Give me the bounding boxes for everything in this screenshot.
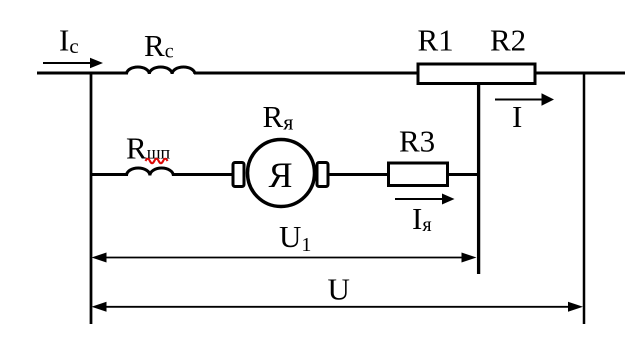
wire top-right segment: [536, 72, 625, 75]
motor armature circle: [248, 140, 315, 207]
svg-text:Rc: Rc: [144, 28, 174, 63]
current arrow Ic: [43, 58, 103, 69]
brush left: [233, 163, 244, 187]
inductor Rshp shunt winding: [127, 168, 174, 175]
wire motor to R3: [328, 173, 388, 176]
svg-text:U: U: [328, 272, 350, 307]
svg-text:Ic: Ic: [59, 23, 79, 59]
brush right: [317, 163, 328, 187]
svg-text:R1: R1: [418, 23, 454, 58]
resistor R3: [389, 163, 448, 186]
wire lower-left segment: [90, 173, 128, 176]
resistor R1 R2 body: [418, 64, 535, 84]
red spellcheck squiggle: [146, 159, 168, 164]
svg-text:U1: U1: [279, 219, 311, 256]
svg-text:R2: R2: [490, 23, 526, 58]
wire tap node from R1R2 down: [477, 85, 480, 274]
wire winding to motor: [172, 173, 234, 176]
wire top-left segment: [37, 72, 128, 75]
svg-text:Iя: Iя: [412, 201, 432, 236]
wire R3 to node: [448, 173, 480, 176]
svg-text:Я: Я: [268, 155, 292, 195]
inductor Rc series winding: [127, 67, 195, 74]
current arrow I: [495, 93, 554, 106]
svg-text:Rя: Rя: [263, 99, 294, 135]
dimension arrow U1: [92, 253, 477, 263]
svg-text:I: I: [512, 99, 522, 134]
wire top-middle segment: [194, 72, 418, 75]
dimension arrow U: [92, 302, 584, 312]
wire left vertical: [90, 72, 93, 325]
current arrow Iya: [395, 194, 455, 205]
wire right vertical extension: [583, 72, 586, 325]
svg-text:R3: R3: [399, 124, 435, 159]
